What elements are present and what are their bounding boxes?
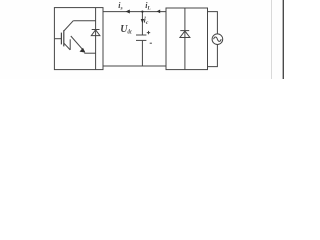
svg-text:Udc: Udc (120, 24, 132, 36)
svg-text:iL: iL (145, 1, 151, 12)
svg-text:ic: ic (144, 15, 149, 26)
svg-text:is: is (118, 1, 122, 12)
